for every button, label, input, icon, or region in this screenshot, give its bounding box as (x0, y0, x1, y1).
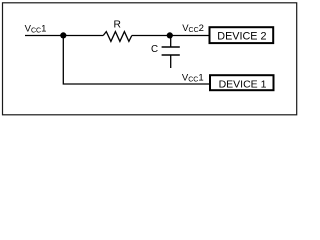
capacitor C (162, 36, 180, 69)
svg-text:DEVICE 1: DEVICE 1 (219, 79, 267, 91)
wire VCC1 junction down and across to DEVICE 1 (63, 35, 209, 84)
junction dot at VCC1 node (60, 32, 66, 38)
svg-text:R: R (114, 20, 121, 31)
svg-text:VCC1: VCC1 (182, 72, 204, 83)
svg-text:VCC2: VCC2 (182, 23, 204, 34)
device DEVICE 1 box (210, 75, 274, 90)
wire VCC1 to resistor (25, 35, 103, 37)
wire resistor to DEVICE 2 (132, 35, 209, 37)
svg-text:VCC1: VCC1 (25, 23, 47, 34)
svg-text:DEVICE 2: DEVICE 2 (217, 31, 266, 43)
device DEVICE 2 box (210, 27, 274, 43)
svg-text:C: C (151, 44, 158, 55)
junction dot at VCC2 node (167, 32, 173, 38)
resistor R (103, 32, 132, 42)
